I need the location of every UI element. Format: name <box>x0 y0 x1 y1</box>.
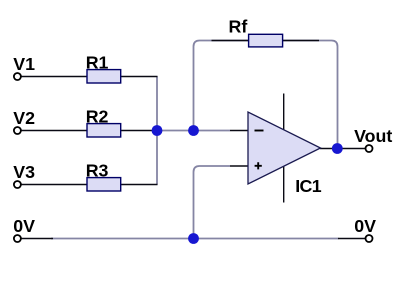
wire: feedback loop from inverting node up over Rf to output <box>194 41 338 149</box>
wire: Rf left lead <box>212 40 250 42</box>
svg-text:R1: R1 <box>86 52 109 72</box>
wire: 0V right terminal lead <box>338 238 365 240</box>
node: inverting input / feedback junction dot <box>188 125 199 136</box>
terminal 0V left <box>13 216 35 242</box>
svg-text:Vout: Vout <box>354 126 392 146</box>
node: summing junction dot (bus) <box>152 125 163 136</box>
wire: V3 lead to R3 <box>21 184 87 186</box>
svg-text:0V: 0V <box>354 216 376 236</box>
wire: V2 lead to R2 <box>21 130 87 132</box>
resistor Rf <box>229 17 283 47</box>
wire: R3 to vertical bus <box>121 184 158 186</box>
svg-text:R3: R3 <box>86 160 109 180</box>
terminal V2 <box>13 108 35 134</box>
svg-text:V1: V1 <box>13 54 35 74</box>
op-amp IC1 <box>248 94 322 203</box>
wire: node bus to op-amp inverting input <box>157 130 230 132</box>
node: 0V rail junction dot <box>188 233 199 244</box>
terminal 0V right <box>354 216 376 242</box>
svg-text:0V: 0V <box>13 216 35 236</box>
resistor R2 <box>86 106 121 137</box>
wire: R2 to node A <box>121 130 158 132</box>
svg-text:IC1: IC1 <box>295 176 322 196</box>
resistor R1 <box>86 52 121 83</box>
wire: 0V rail <box>51 238 339 240</box>
bottom power pin <box>283 166 285 203</box>
top power pin <box>283 94 285 131</box>
resistor R3 <box>86 160 121 191</box>
minus sign <box>255 130 264 132</box>
wire: op-amp inverting input lead <box>230 130 249 132</box>
wire: op-amp output lead to Vout <box>320 148 365 150</box>
wire: 0V left terminal lead <box>21 238 53 240</box>
wire: op-amp non-inverting input lead <box>230 165 249 167</box>
terminal V3 <box>13 162 35 188</box>
wire: Rf right lead <box>283 40 320 42</box>
wire: non-inverting input down to 0V rail <box>194 166 231 239</box>
node: output junction dot <box>332 143 343 154</box>
svg-text:Rf: Rf <box>229 17 248 37</box>
plus sign <box>255 162 262 169</box>
svg-text:R2: R2 <box>86 106 109 126</box>
svg-text:V3: V3 <box>13 162 35 182</box>
wire: R1 to vertical bus <box>121 76 158 78</box>
wire: V1 lead to R1 <box>21 76 87 78</box>
svg-text:V2: V2 <box>13 108 35 128</box>
terminal V1 <box>13 54 35 80</box>
triangle body <box>248 112 321 184</box>
wire: vertical bus joining R1,R2,R3 outputs <box>156 77 158 185</box>
terminal Vout <box>354 126 392 152</box>
